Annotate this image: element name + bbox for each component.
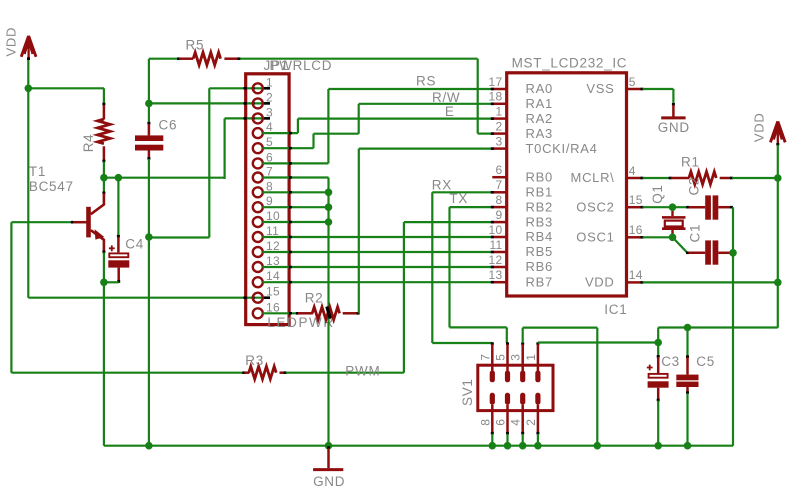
svg-text:RB2: RB2 xyxy=(526,199,553,214)
node: junction OSC1/crystal at (672.5,237.3) xyxy=(669,234,677,242)
node: SV1 pin 2 bus junction xyxy=(534,442,542,450)
svg-text:R5: R5 xyxy=(186,37,205,52)
svg-text:4: 4 xyxy=(629,164,636,178)
svg-text:17: 17 xyxy=(489,75,503,89)
svg-text:RB3: RB3 xyxy=(526,214,553,229)
svg-text:R4: R4 xyxy=(81,134,96,153)
capacitor C1 xyxy=(673,237,733,264)
node: SV1 pin 6 bus junction xyxy=(504,442,512,450)
node: SV1 pin 4 bus junction xyxy=(519,442,527,450)
IC1 pin 16 OSC1 stub xyxy=(627,236,644,239)
wire: VDD rail turn to C5/C3 row xyxy=(658,326,778,328)
SV1 pin 1 (top) xyxy=(535,342,540,382)
wire: R5 output riser to IC RA3 at x477.7 xyxy=(477,59,479,134)
svg-text:12: 12 xyxy=(489,253,503,267)
svg-text:1: 1 xyxy=(524,354,538,361)
wire: IC VDD pin14 to rail xyxy=(643,281,778,283)
svg-text:R1: R1 xyxy=(681,155,700,170)
wire: pin3 riser x224.6 xyxy=(224,118,226,179)
wire: RX net RB1 to SV1 pin7 xyxy=(432,191,492,193)
wire: header pin7 to GND vertical xyxy=(262,176,328,178)
capacitor C6 xyxy=(135,59,163,446)
wire: SV1 pin3 riser to GND drop xyxy=(522,328,524,343)
svg-text:8: 8 xyxy=(478,419,492,426)
svg-text:3: 3 xyxy=(509,354,523,361)
SV1 pin 6 (bottom) xyxy=(505,393,510,446)
svg-text:16: 16 xyxy=(629,223,643,237)
node: GND drop bus junction at (597.3,445.7) xyxy=(594,442,602,450)
svg-text:7: 7 xyxy=(496,178,503,192)
wire: header pin15 black marks xyxy=(244,296,247,299)
transistor T1 BC547 (NPN) xyxy=(11,178,105,446)
svg-text:11: 11 xyxy=(489,238,502,252)
wire: header pin4 E staircase xyxy=(262,132,298,134)
power symbol VDD (left) xyxy=(21,36,36,59)
IC1 MST_LCD232_IC box xyxy=(507,73,627,296)
IC1 pin 2 RA3 stub xyxy=(491,132,507,135)
svg-text:T1: T1 xyxy=(29,164,46,179)
svg-text:6: 6 xyxy=(494,419,508,426)
svg-text:PWRLCD: PWRLCD xyxy=(270,58,333,73)
svg-text:RA1: RA1 xyxy=(526,96,553,111)
node: junction C6-top/R5/pin2 at (148.9,103.4) xyxy=(145,100,153,108)
wire: header pin2 to C6 junction xyxy=(149,102,270,104)
wire: header pin3 to riser xyxy=(225,117,270,119)
svg-text:T0CKI/RA4: T0CKI/RA4 xyxy=(526,141,598,156)
wire overlap: GND vertical over R2 zigzag (black) xyxy=(327,307,331,319)
wire: VSS to GND xyxy=(643,88,674,90)
svg-text:PWM: PWM xyxy=(345,363,380,378)
svg-text:RB1: RB1 xyxy=(526,185,553,200)
svg-text:C4: C4 xyxy=(125,236,144,251)
svg-text:BC547: BC547 xyxy=(29,179,74,194)
capacitor C2 xyxy=(686,195,733,219)
resistor R5 (horizontal) xyxy=(149,52,478,65)
svg-text:Q1: Q1 xyxy=(650,184,665,203)
IC1 pin 14 VDD stub xyxy=(627,281,644,284)
svg-text:IC1: IC1 xyxy=(604,302,627,317)
power symbol VDD (right) xyxy=(770,121,785,144)
node: junction R4/collector row at (103.9,177.7) xyxy=(100,174,108,182)
svg-text:VSS: VSS xyxy=(586,81,614,96)
svg-text:5: 5 xyxy=(629,75,636,89)
svg-text:R2: R2 xyxy=(305,291,324,306)
wire: header pin16 to R2 xyxy=(262,312,297,314)
resistor R3 xyxy=(11,366,404,379)
svg-text:10: 10 xyxy=(489,223,503,237)
wire: header pin11 to IC RB4 xyxy=(262,236,492,238)
node: junction pin14/VDD rail at (777.8,282.4) xyxy=(774,279,782,287)
svg-text:8: 8 xyxy=(496,193,503,207)
wire: VDD rail to header pin15 xyxy=(28,297,270,299)
svg-text:SV1: SV1 xyxy=(460,378,475,406)
capacitor C5 xyxy=(676,328,698,446)
wire: PWM net RB3 riser xyxy=(404,221,492,223)
wire: T0CKI vertical x358.8 to R2 xyxy=(358,149,360,314)
IC1 pin 9 RB3 stub xyxy=(491,221,507,224)
svg-text:14: 14 xyxy=(629,268,643,282)
svg-text:TX: TX xyxy=(449,191,468,206)
svg-text:15: 15 xyxy=(629,193,643,207)
svg-text:3: 3 xyxy=(496,134,503,148)
IC1 pin 11 RB5 stub xyxy=(491,251,507,254)
svg-text:RA2: RA2 xyxy=(526,111,553,126)
svg-text:C6: C6 xyxy=(159,118,178,133)
svg-text:18: 18 xyxy=(489,90,503,104)
svg-text:13: 13 xyxy=(489,268,503,282)
SV1 pin 2 (bottom) xyxy=(535,393,540,446)
header JP1 pin numbers 1-16 xyxy=(266,75,280,314)
svg-text:C5: C5 xyxy=(696,354,715,369)
crystal Q1 xyxy=(643,207,687,237)
node: junction R1/VDD at (777.8,178) xyxy=(774,174,782,182)
svg-text:VDD: VDD xyxy=(752,113,767,143)
svg-text:R/W: R/W xyxy=(432,90,460,105)
wire: ground bus bottom xyxy=(104,445,733,447)
header JP1 pin circles 1-16 xyxy=(253,83,263,318)
svg-text:GND: GND xyxy=(658,120,690,135)
svg-text:9: 9 xyxy=(496,208,503,222)
IC1 pin 15 OSC2 stub xyxy=(627,206,644,209)
svg-text:RA3: RA3 xyxy=(526,126,553,141)
node: junction C5 top at (687.5,327.5) xyxy=(684,324,692,332)
resistor R4 (vertical at x103.9) xyxy=(98,88,111,177)
wire: header pin9 xyxy=(262,206,328,208)
wire: header pin12 to IC RB5 xyxy=(262,251,492,253)
svg-text:RB7: RB7 xyxy=(526,274,553,289)
wire: VDD to R4 top horizontal xyxy=(28,87,104,89)
svg-text:RS: RS xyxy=(416,73,436,88)
svg-text:R3: R3 xyxy=(245,353,264,368)
IC1 pin 8 RB2 stub xyxy=(491,206,507,209)
IC1 pin 4 MCLR\ stub xyxy=(627,177,644,180)
wire: C3 corner drop x658.2 xyxy=(657,328,659,358)
IC1 pin 12 RB6 stub xyxy=(491,266,507,269)
node: bus junction C6 net at (148.9,445.7) xyxy=(145,442,153,450)
SV1 pin 8 (bottom) xyxy=(490,393,495,446)
svg-text:C1: C1 xyxy=(688,224,703,243)
resistor R2 xyxy=(296,307,360,320)
wire: header pin1 to riser xyxy=(209,87,270,89)
IC1 pin 6 RB0 stub xyxy=(492,176,506,179)
SV1 pin 5 (top) xyxy=(505,342,510,382)
svg-text:VDD: VDD xyxy=(585,275,615,290)
ground symbol GND (bottom) xyxy=(313,446,343,469)
node: bus junction GND stem at (328.5,445.7) xyxy=(325,442,333,450)
capacitor C4 (electrolytic) xyxy=(104,178,129,283)
svg-text:RB6: RB6 xyxy=(526,259,553,274)
IC1 pin 17 RA0 stub xyxy=(491,88,507,91)
node: junction C1/C2 ground at (733,252.8) xyxy=(729,249,737,257)
node: junction VDD/R4 at (28.3,88.3) xyxy=(25,85,33,93)
IC1 pin 5 VSS stub xyxy=(627,88,644,91)
IC1 pin 1 RA2 stub xyxy=(491,117,507,120)
svg-text:MST_LCD232_IC: MST_LCD232_IC xyxy=(512,55,628,70)
wire: header pin10 xyxy=(262,221,328,223)
svg-text:C3: C3 xyxy=(661,354,680,369)
svg-text:OSC1: OSC1 xyxy=(576,230,614,245)
connector SV1 box xyxy=(478,365,553,410)
svg-text:4: 4 xyxy=(509,419,523,426)
node: bus junction C3 at (658.2,445.7) xyxy=(654,442,662,450)
svg-text:E: E xyxy=(445,104,455,119)
wire: GND vertical x328.5 xyxy=(327,178,329,446)
svg-text:OSC2: OSC2 xyxy=(576,199,614,214)
svg-text:MCLR\: MCLR\ xyxy=(571,170,615,185)
wire: VDD right rail xyxy=(777,145,779,328)
capacitor C3 (electrolytic) xyxy=(647,355,669,446)
svg-text:RB0: RB0 xyxy=(526,169,553,184)
IC1 pin 3 T0CKI/RA4 stub xyxy=(491,147,507,150)
node: bus junction C5 at (687.5,445.7) xyxy=(684,442,692,450)
svg-text:1: 1 xyxy=(496,104,503,118)
svg-text:7: 7 xyxy=(478,354,492,361)
resistor R1 (MCLR pullup) xyxy=(643,172,778,185)
wire: VDD left rail vertical x28.3 xyxy=(27,59,29,298)
SV1 pin 4 (bottom) xyxy=(520,393,525,446)
wire: header pin6 RS riser xyxy=(262,162,328,164)
wire: header pin5 R/W staircase xyxy=(262,147,313,149)
svg-text:VDD: VDD xyxy=(4,27,19,57)
wire: C2 right drop to C1 junction x733 xyxy=(732,207,734,446)
svg-text:RB5: RB5 xyxy=(526,244,553,259)
svg-text:2: 2 xyxy=(496,119,503,133)
ground symbol GND (top right) xyxy=(661,103,685,118)
svg-text:2: 2 xyxy=(524,419,538,426)
node: junction OSC2/crystal at (672.5,207.2) xyxy=(669,203,677,211)
svg-text:GND: GND xyxy=(313,474,345,489)
svg-text:5: 5 xyxy=(494,354,508,361)
svg-text:RB4: RB4 xyxy=(526,229,553,244)
node: junction C4 stem at (118.4,177.7) xyxy=(115,174,123,182)
wire: header pin8 xyxy=(262,191,328,193)
header JP1 PWRLCD box xyxy=(246,74,289,325)
wire: base net left/down to PWM row xyxy=(10,222,12,373)
wire: SV1 pin1 to C3 junction xyxy=(538,341,658,343)
wire: TX net RB2 to SV1 pin5 xyxy=(450,206,493,208)
svg-text:C2: C2 xyxy=(687,177,702,196)
node: junction C6-bottom/pin1 net at (148.9,237.0) xyxy=(145,233,153,241)
wire: header pin13 to IC RB6 xyxy=(262,266,492,268)
IC1 pin 10 RB4 stub xyxy=(491,236,507,239)
node: junction emitter/C4 at (103.9,282.3) xyxy=(100,279,108,287)
SV1 pin 7 (top) xyxy=(490,342,495,382)
svg-text:6: 6 xyxy=(496,163,503,177)
SV1 pin 3 (top) xyxy=(520,342,525,382)
wire: pin1 riser x209.3 xyxy=(208,88,210,237)
node: SV1 pin 8 bus junction xyxy=(489,442,497,450)
wire: header pin14 to IC RB7 / PWM riser xyxy=(262,281,492,283)
IC1 pin 13 RB7 stub xyxy=(491,281,507,284)
node: junction SV1-pin1 net / C3 at (658.2,342.5) xyxy=(654,339,662,347)
IC1 pin 18 RA1 stub xyxy=(491,103,507,106)
svg-text:RA0: RA0 xyxy=(526,81,553,96)
wire: collector row to pin3 riser xyxy=(104,177,225,179)
IC1 pin 7 RB1 stub xyxy=(491,191,507,194)
